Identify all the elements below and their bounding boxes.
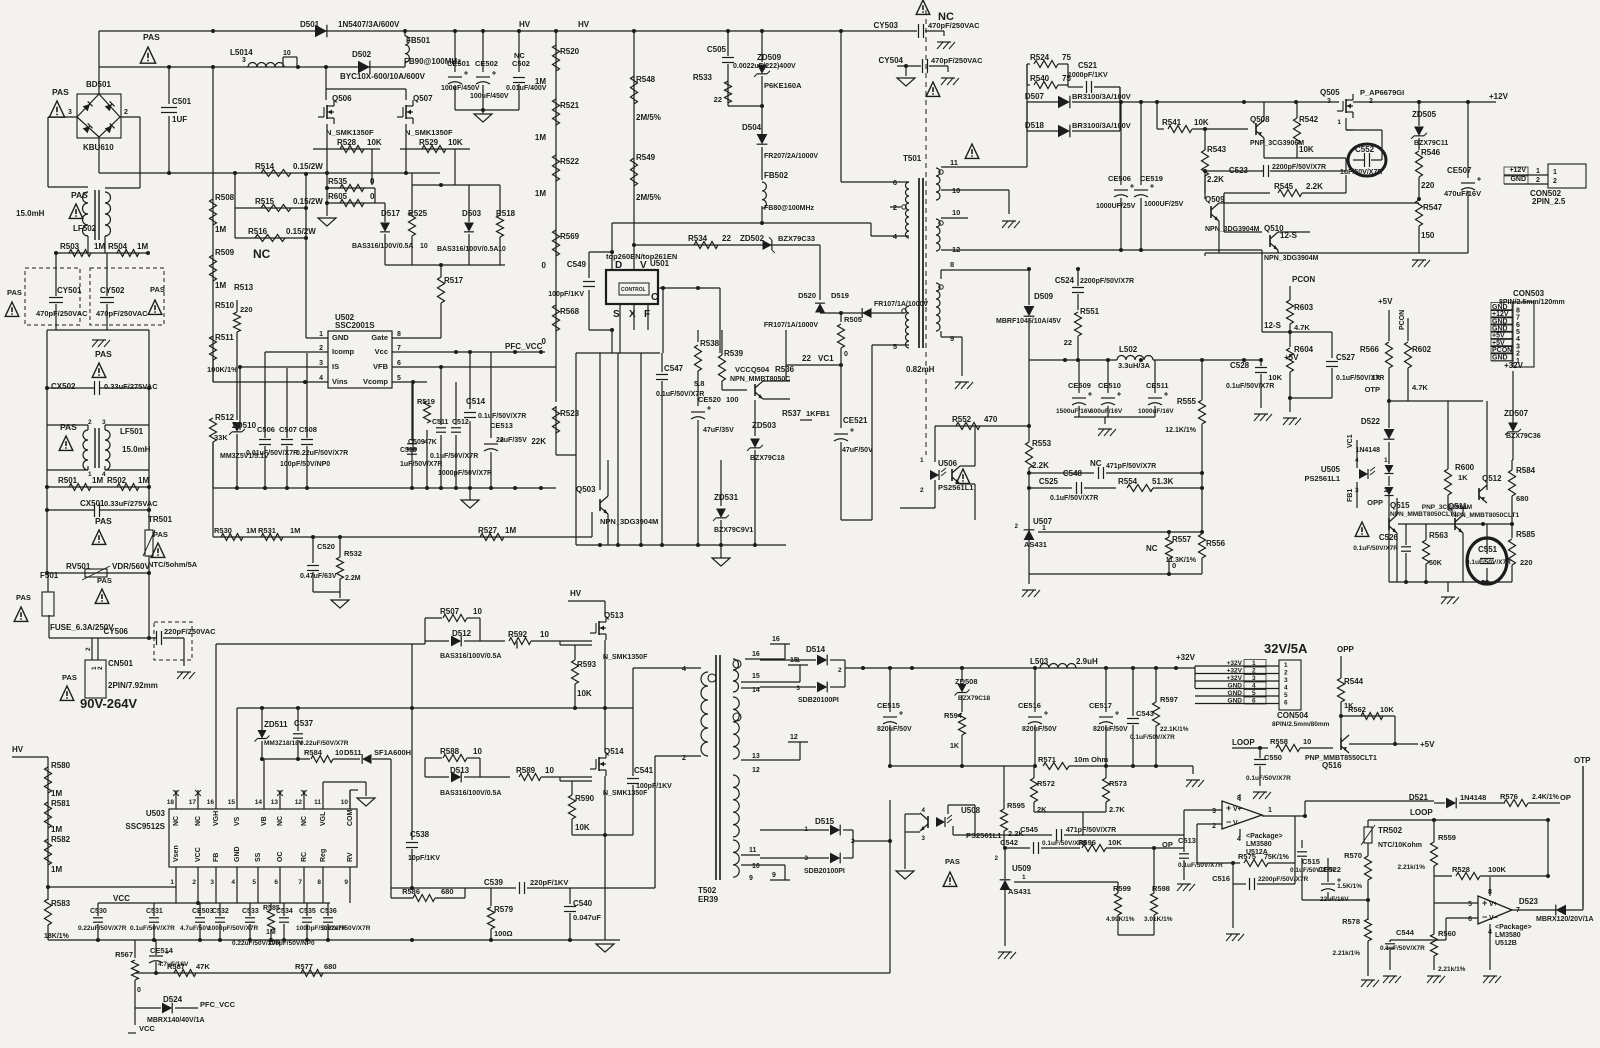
svg-text:2.21k/1%: 2.21k/1% <box>1438 966 1466 973</box>
svg-text:11: 11 <box>749 847 757 854</box>
svg-text:12.1K/1%: 12.1K/1% <box>1165 427 1197 434</box>
svg-text:−: − <box>1226 817 1231 827</box>
svg-text:BAS316/100V/0.5A: BAS316/100V/0.5A <box>440 653 501 660</box>
svg-text:680: 680 <box>324 962 337 971</box>
svg-text:7: 7 <box>298 879 302 886</box>
svg-text:NTC/5ohm/5A: NTC/5ohm/5A <box>148 560 198 569</box>
svg-text:R520: R520 <box>560 47 580 56</box>
svg-text:6: 6 <box>1284 700 1288 707</box>
svg-text:470pF/250VAC: 470pF/250VAC <box>931 56 983 65</box>
svg-text:3: 3 <box>1284 677 1288 684</box>
svg-text:R571: R571 <box>1038 755 1056 764</box>
svg-text:R528: R528 <box>337 138 357 147</box>
svg-text:−: − <box>1482 912 1487 922</box>
svg-text:N_SMK1350F: N_SMK1350F <box>405 128 453 137</box>
svg-text:R524: R524 <box>1030 53 1050 62</box>
svg-text:47K: 47K <box>424 439 437 446</box>
svg-text:FB: FB <box>213 853 220 862</box>
svg-text:1: 1 <box>1516 358 1520 365</box>
svg-text:L502: L502 <box>1119 345 1138 354</box>
svg-text:CE519: CE519 <box>1140 174 1163 183</box>
svg-text:D512: D512 <box>452 629 472 638</box>
svg-text:2: 2 <box>124 109 128 116</box>
svg-text:C537: C537 <box>294 719 314 728</box>
svg-text:CE517: CE517 <box>1089 701 1112 710</box>
svg-text:NC: NC <box>1090 459 1102 468</box>
svg-text:R605: R605 <box>328 192 348 201</box>
svg-text:0.1uF/50V/X7R: 0.1uF/50V/X7R <box>1050 495 1098 502</box>
svg-text:22: 22 <box>714 95 722 104</box>
svg-text:C543: C543 <box>1136 709 1154 718</box>
svg-text:47K: 47K <box>196 962 210 971</box>
svg-text:C533: C533 <box>242 908 259 915</box>
svg-text:HV: HV <box>578 20 590 29</box>
svg-text:R546: R546 <box>1421 148 1441 157</box>
svg-text:PAS: PAS <box>71 190 88 200</box>
svg-text:R549: R549 <box>636 153 656 162</box>
svg-text:D502: D502 <box>352 50 372 59</box>
svg-text:3: 3 <box>1212 808 1216 815</box>
svg-text:0.1uF/50V/X7R: 0.1uF/50V/X7R <box>656 391 704 398</box>
svg-text:R503: R503 <box>60 242 80 251</box>
svg-text:C520: C520 <box>317 542 335 551</box>
svg-text:SDB20100PI: SDB20100PI <box>804 868 845 875</box>
svg-text:0.22uF/50V/X7R: 0.22uF/50V/X7R <box>296 450 348 457</box>
svg-text:GND: GND <box>1228 683 1243 690</box>
svg-text:R603: R603 <box>1294 303 1314 312</box>
svg-text:C513: C513 <box>1178 836 1196 845</box>
svg-text:CE510: CE510 <box>1098 381 1121 390</box>
svg-text:0.01uF/400V: 0.01uF/400V <box>506 85 547 92</box>
svg-text:BZX79C36: BZX79C36 <box>1506 433 1541 440</box>
svg-text:C525: C525 <box>1039 477 1059 486</box>
svg-text:CY501: CY501 <box>57 286 82 295</box>
svg-text:D522: D522 <box>1361 417 1381 426</box>
svg-text:1.5K/1%: 1.5K/1% <box>1337 883 1362 890</box>
svg-text:0: 0 <box>370 192 375 201</box>
svg-text:2: 2 <box>192 879 196 886</box>
svg-text:4.7K: 4.7K <box>1294 323 1310 332</box>
svg-text:R598: R598 <box>1152 884 1170 893</box>
svg-text:PAS: PAS <box>150 285 165 294</box>
svg-text:BZX79C11: BZX79C11 <box>1414 140 1448 147</box>
svg-text:2: 2 <box>920 487 924 494</box>
svg-text:CE516: CE516 <box>1018 701 1041 710</box>
svg-text:ZD503: ZD503 <box>752 421 777 430</box>
svg-text:C535: C535 <box>299 908 316 915</box>
svg-text:3: 3 <box>1252 675 1256 682</box>
svg-text:R529: R529 <box>419 138 439 147</box>
svg-text:VCCQ504: VCCQ504 <box>735 365 770 374</box>
svg-text:OTP: OTP <box>1365 385 1380 394</box>
svg-text:FB80@100MHz: FB80@100MHz <box>764 205 815 212</box>
svg-text:R582: R582 <box>51 835 71 844</box>
svg-text:NC: NC <box>173 816 180 826</box>
svg-text:2: 2 <box>88 419 92 426</box>
svg-text:100pF/50V/NP0: 100pF/50V/NP0 <box>280 461 330 468</box>
svg-text:C538: C538 <box>410 830 430 839</box>
svg-text:1: 1 <box>920 457 924 464</box>
svg-text:+32V: +32V <box>1176 653 1196 662</box>
svg-text:C506: C506 <box>257 425 275 434</box>
svg-text:R596: R596 <box>1078 838 1096 847</box>
svg-text:R566: R566 <box>1360 345 1380 354</box>
svg-text:C507: C507 <box>279 425 297 434</box>
svg-text:NC: NC <box>253 247 271 261</box>
svg-text:14: 14 <box>255 799 263 806</box>
svg-text:1: 1 <box>1384 457 1388 464</box>
svg-text:220pF/250VAC: 220pF/250VAC <box>164 627 216 636</box>
svg-text:D509: D509 <box>1034 292 1054 301</box>
svg-text:150: 150 <box>1421 231 1435 240</box>
svg-text:R604: R604 <box>1294 345 1314 354</box>
svg-text:100Ω: 100Ω <box>494 929 513 938</box>
svg-text:+12V: +12V <box>1489 92 1509 101</box>
svg-text:2.21k/1%: 2.21k/1% <box>1333 950 1361 957</box>
svg-text:LM3580: LM3580 <box>1495 932 1521 939</box>
svg-text:Q503: Q503 <box>576 485 596 494</box>
svg-text:R553: R553 <box>1032 439 1052 448</box>
svg-text:R590: R590 <box>575 794 595 803</box>
svg-text:OPP: OPP <box>1337 645 1355 654</box>
svg-text:R544: R544 <box>1344 677 1364 686</box>
svg-text:R563: R563 <box>1429 531 1449 540</box>
svg-text:Q512: Q512 <box>1482 474 1502 483</box>
svg-text:D: D <box>615 260 622 271</box>
svg-text:PNP_3CG3906M: PNP_3CG3906M <box>1250 140 1304 147</box>
svg-text:100pF/1KV: 100pF/1KV <box>636 783 672 790</box>
svg-text:0: 0 <box>542 337 547 346</box>
svg-text:9: 9 <box>772 872 776 879</box>
svg-text:COM: COM <box>347 810 354 827</box>
svg-text:C540: C540 <box>573 899 593 908</box>
svg-text:0.15/2W: 0.15/2W <box>286 227 316 236</box>
svg-text:10pF/1KV: 10pF/1KV <box>408 855 440 862</box>
svg-text:10: 10 <box>752 863 760 870</box>
svg-text:1500uF/16V: 1500uF/16V <box>1056 408 1092 415</box>
svg-text:R547: R547 <box>1423 203 1443 212</box>
svg-text:OC: OC <box>277 852 284 863</box>
svg-text:2.4K/1%: 2.4K/1% <box>1532 794 1560 801</box>
svg-text:2: 2 <box>1384 487 1388 494</box>
svg-text:7: 7 <box>1516 315 1520 322</box>
svg-text:R533: R533 <box>693 73 713 82</box>
svg-text:470pF/250VAC: 470pF/250VAC <box>36 309 88 318</box>
svg-text:GND: GND <box>1228 690 1243 697</box>
svg-text:D515: D515 <box>815 817 835 826</box>
svg-text:470pF/250VAC: 470pF/250VAC <box>96 309 148 318</box>
svg-text:10: 10 <box>545 766 554 775</box>
svg-text:10: 10 <box>498 246 506 253</box>
svg-text:Q511: Q511 <box>1448 502 1468 511</box>
svg-text:BZX79C18: BZX79C18 <box>750 455 785 462</box>
svg-text:2: 2 <box>97 666 104 670</box>
svg-text:VDR/560V: VDR/560V <box>112 562 150 571</box>
svg-text:R510: R510 <box>215 301 235 310</box>
svg-text:CN501: CN501 <box>108 659 133 668</box>
svg-text:5: 5 <box>1284 692 1288 699</box>
svg-text:F: F <box>644 309 650 320</box>
svg-text:NPN_MMBT8050C: NPN_MMBT8050C <box>730 376 790 383</box>
svg-text:75: 75 <box>1062 53 1071 62</box>
svg-text:13: 13 <box>752 753 760 760</box>
svg-text:2PIN/7.92mm: 2PIN/7.92mm <box>108 681 158 690</box>
svg-text:1M: 1M <box>51 865 62 874</box>
svg-text:R595: R595 <box>1007 801 1025 810</box>
svg-text:MBRF1045/10A/45V: MBRF1045/10A/45V <box>996 318 1061 325</box>
svg-text:VGL: VGL <box>320 811 327 826</box>
svg-text:PAS: PAS <box>16 593 31 602</box>
svg-text:PFC_VCC: PFC_VCC <box>505 342 543 351</box>
svg-text:U503: U503 <box>146 809 166 818</box>
svg-text:1UF: 1UF <box>172 115 187 124</box>
svg-text:10: 10 <box>473 607 482 616</box>
svg-text:470pF/250VAC: 470pF/250VAC <box>928 21 980 30</box>
svg-text:C531: C531 <box>146 908 163 915</box>
svg-text:R597: R597 <box>1160 695 1178 704</box>
svg-text:220: 220 <box>1520 558 1533 567</box>
svg-text:R523: R523 <box>560 409 580 418</box>
svg-text:2: 2 <box>319 345 323 352</box>
svg-text:0.82mH: 0.82mH <box>906 365 935 374</box>
svg-text:CE502: CE502 <box>475 59 498 68</box>
svg-text:5: 5 <box>1468 901 1472 908</box>
svg-text:BZX79C33: BZX79C33 <box>778 234 815 243</box>
svg-text:680: 680 <box>441 887 454 896</box>
svg-text:0.22uF/50V/X7R: 0.22uF/50V/X7R <box>322 925 371 932</box>
svg-text:R587: R587 <box>167 962 185 971</box>
svg-text:Icomp: Icomp <box>332 347 355 356</box>
svg-text:4: 4 <box>319 375 323 382</box>
svg-text:R536: R536 <box>775 365 795 374</box>
svg-text:C549: C549 <box>567 260 587 269</box>
svg-text:U501: U501 <box>650 259 670 268</box>
svg-text:1M: 1M <box>215 281 226 290</box>
svg-text:R519: R519 <box>417 397 435 406</box>
svg-text:820uF/50V: 820uF/50V <box>877 726 912 733</box>
svg-text:NPN_MMBT8050CLT1: NPN_MMBT8050CLT1 <box>1452 512 1519 519</box>
svg-text:PAS: PAS <box>60 422 77 432</box>
svg-text:VGH: VGH <box>213 811 220 826</box>
svg-text:BAS316/100V/0.5A: BAS316/100V/0.5A <box>352 243 413 250</box>
svg-text:R555: R555 <box>1177 397 1197 406</box>
svg-text:3: 3 <box>242 57 246 64</box>
svg-text:PAS: PAS <box>7 288 22 297</box>
svg-text:VS: VS <box>234 816 241 826</box>
svg-text:BAS316/100V/0.5A: BAS316/100V/0.5A <box>440 790 501 797</box>
svg-text:6: 6 <box>274 879 278 886</box>
svg-text:PAS: PAS <box>143 32 160 42</box>
svg-text:VCC: VCC <box>139 1024 155 1033</box>
svg-text:PCON: PCON <box>1399 310 1406 330</box>
svg-text:R585: R585 <box>1516 530 1536 539</box>
svg-text:470uF/16V: 470uF/16V <box>1444 189 1481 198</box>
svg-text:CONTROL: CONTROL <box>621 287 646 293</box>
svg-text:1000pF/50V/X7R: 1000pF/50V/X7R <box>438 470 492 477</box>
svg-text:7: 7 <box>397 345 401 352</box>
svg-text:1N4148: 1N4148 <box>1460 793 1486 802</box>
svg-text:0: 0 <box>542 261 547 270</box>
svg-text:10K: 10K <box>448 138 463 147</box>
svg-text:R545: R545 <box>1274 182 1294 191</box>
svg-text:2200pF/50V/X7R: 2200pF/50V/X7R <box>1272 164 1326 171</box>
svg-text:NPN_3DG3904M: NPN_3DG3904M <box>1264 255 1319 262</box>
svg-text:2200pF/50V/X7R: 2200pF/50V/X7R <box>1080 278 1134 285</box>
svg-text:R559: R559 <box>1438 833 1456 842</box>
svg-text:R592: R592 <box>508 630 528 639</box>
svg-text:CE521: CE521 <box>843 416 868 425</box>
svg-text:V+: V+ <box>1233 806 1242 813</box>
svg-text:8: 8 <box>950 260 954 269</box>
svg-text:CX501: CX501 <box>80 499 105 508</box>
svg-text:V: V <box>640 260 647 271</box>
svg-text:AS431: AS431 <box>1008 887 1031 896</box>
svg-text:3.01K/1%: 3.01K/1% <box>1144 916 1173 923</box>
svg-text:10K: 10K <box>577 689 592 698</box>
svg-text:CE501: CE501 <box>447 59 470 68</box>
svg-text:PAS: PAS <box>62 673 77 682</box>
svg-text:2: 2 <box>1516 351 1520 358</box>
svg-text:100K: 100K <box>1488 865 1507 874</box>
svg-text:2.7K: 2.7K <box>1109 805 1125 814</box>
svg-text:D520: D520 <box>798 291 816 300</box>
svg-text:0.1uF/50V/X7R: 0.1uF/50V/X7R <box>1353 545 1398 552</box>
svg-text:1000uF/16V: 1000uF/16V <box>1138 408 1174 415</box>
svg-text:R581: R581 <box>51 799 71 808</box>
svg-text:PAS: PAS <box>945 857 960 866</box>
svg-text:2: 2 <box>682 753 686 762</box>
svg-text:D521: D521 <box>1409 793 1429 802</box>
svg-text:4.7uF/50V: 4.7uF/50V <box>180 925 211 932</box>
svg-text:22: 22 <box>1064 338 1072 347</box>
svg-text:PAS: PAS <box>52 87 69 97</box>
svg-text:FR207/2A/1000V: FR207/2A/1000V <box>764 153 818 160</box>
svg-text:R516: R516 <box>248 227 268 236</box>
svg-text:C541: C541 <box>634 766 654 775</box>
svg-text:3: 3 <box>796 685 800 692</box>
svg-text:R502: R502 <box>107 476 127 485</box>
svg-text:NPN_3DG3904M: NPN_3DG3904M <box>600 517 658 526</box>
svg-text:RC: RC <box>301 852 308 862</box>
svg-text:15: 15 <box>228 799 236 806</box>
svg-text:ZD507: ZD507 <box>1504 409 1529 418</box>
svg-text:C509: C509 <box>408 439 425 446</box>
svg-text:CON504: CON504 <box>1277 711 1309 720</box>
svg-text:HV: HV <box>519 20 531 29</box>
svg-text:VCC: VCC <box>195 847 202 862</box>
svg-text:0.1uF/50V/X7R: 0.1uF/50V/X7R <box>1246 775 1291 782</box>
svg-text:GND: GND <box>1492 354 1508 361</box>
svg-text:R511: R511 <box>215 333 234 342</box>
svg-text:Vcomp: Vcomp <box>363 377 388 386</box>
svg-text:PAS: PAS <box>95 516 112 526</box>
svg-text:VC1: VC1 <box>1347 434 1354 448</box>
svg-text:R560: R560 <box>1438 929 1456 938</box>
svg-text:2: 2 <box>838 667 842 674</box>
svg-text:R576: R576 <box>1500 792 1518 801</box>
svg-text:1M: 1M <box>505 526 516 535</box>
svg-text:U508: U508 <box>961 806 981 815</box>
svg-text:R508: R508 <box>215 193 235 202</box>
svg-text:4: 4 <box>1252 683 1256 690</box>
svg-text:1M: 1M <box>138 476 149 485</box>
svg-text:R504: R504 <box>108 242 128 251</box>
svg-text:N_SMK1350F: N_SMK1350F <box>603 654 648 661</box>
svg-text:Q506: Q506 <box>332 94 352 103</box>
svg-text:R600: R600 <box>1455 463 1475 472</box>
svg-text:6: 6 <box>1468 916 1472 923</box>
svg-text:100K/1%: 100K/1% <box>207 365 238 374</box>
svg-text:V+: V+ <box>1489 901 1498 908</box>
svg-text:L503: L503 <box>1030 657 1049 666</box>
svg-text:470: 470 <box>984 415 998 424</box>
svg-text:1000UF/25V: 1000UF/25V <box>1144 201 1184 208</box>
svg-text:R542: R542 <box>1299 115 1319 124</box>
svg-text:R530: R530 <box>214 526 232 535</box>
svg-text:4.99K/1%: 4.99K/1% <box>1106 916 1135 923</box>
svg-text:5: 5 <box>252 879 256 886</box>
svg-text:R589: R589 <box>516 766 536 775</box>
svg-text:R552: R552 <box>952 415 972 424</box>
svg-text:C551: C551 <box>1478 545 1498 554</box>
svg-text:C536: C536 <box>320 908 337 915</box>
svg-text:Q513: Q513 <box>604 611 624 620</box>
svg-text:8: 8 <box>397 331 401 338</box>
svg-text:C: C <box>651 292 658 303</box>
svg-text:10K: 10K <box>1299 145 1314 154</box>
svg-text:C524: C524 <box>1055 276 1075 285</box>
svg-text:D519: D519 <box>831 291 849 300</box>
svg-text:10K: 10K <box>1380 705 1394 714</box>
svg-text:10K: 10K <box>1194 118 1209 127</box>
svg-text:2: 2 <box>85 647 92 651</box>
svg-text:CY503: CY503 <box>874 21 899 30</box>
svg-text:C521: C521 <box>1078 61 1098 70</box>
svg-text:1K: 1K <box>950 743 959 750</box>
svg-text:LOOP: LOOP <box>1232 738 1255 747</box>
svg-text:PAS: PAS <box>97 576 112 585</box>
svg-text:15: 15 <box>752 673 760 680</box>
svg-text:18: 18 <box>167 799 175 806</box>
svg-text:51.3K: 51.3K <box>1152 477 1174 486</box>
svg-text:U509: U509 <box>1012 864 1032 873</box>
svg-text:2: 2 <box>1284 670 1288 677</box>
svg-text:2: 2 <box>1369 98 1373 105</box>
svg-text:1M: 1M <box>246 526 256 535</box>
svg-text:L5014: L5014 <box>230 48 253 57</box>
svg-text:OTP: OTP <box>1574 756 1591 765</box>
svg-text:C550: C550 <box>1264 753 1282 762</box>
svg-text:C527: C527 <box>1336 353 1356 362</box>
svg-text:T501: T501 <box>903 154 922 163</box>
svg-text:D523: D523 <box>1519 897 1539 906</box>
svg-text:R518: R518 <box>496 209 516 218</box>
svg-text:PCON: PCON <box>1292 275 1315 284</box>
svg-text:CY506: CY506 <box>104 627 129 636</box>
svg-text:Q515: Q515 <box>1390 501 1410 510</box>
svg-text:12: 12 <box>295 799 303 806</box>
svg-text:R577: R577 <box>295 962 313 971</box>
svg-text:+32V: +32V <box>1227 668 1243 675</box>
svg-text:CY504: CY504 <box>879 56 904 65</box>
svg-text:10: 10 <box>952 208 960 217</box>
svg-text:GND: GND <box>234 846 241 862</box>
svg-text:1uF/50V/X7R: 1uF/50V/X7R <box>400 461 442 468</box>
svg-text:CE522: CE522 <box>1318 865 1341 874</box>
svg-text:1: 1 <box>1042 525 1046 532</box>
svg-text:P_AP6679GI: P_AP6679GI <box>1360 88 1404 97</box>
svg-text:2K: 2K <box>1037 805 1047 814</box>
